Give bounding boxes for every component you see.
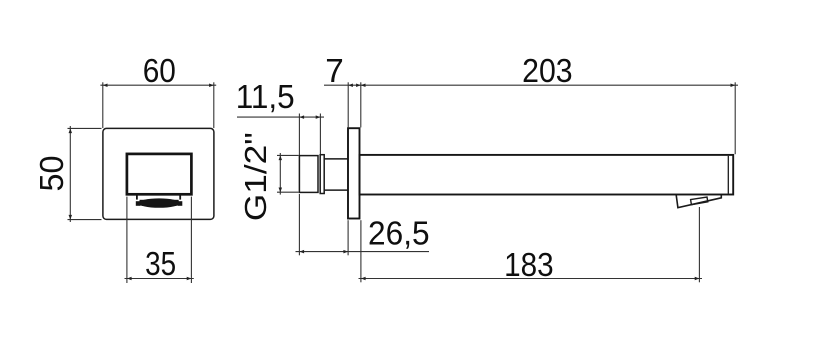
side view: spout end cap seam: [727, 156, 729, 194]
svg-text:203: 203: [522, 52, 573, 89]
front view: aerator ring: [136, 195, 182, 208]
dimension 183: extension lines: [361, 207, 700, 282]
front view: wall plate (60 x 50): [103, 128, 214, 219]
side view: G1/2 threaded connector body: [299, 156, 318, 193]
dimension 26,5: dimension line with arrows: [296, 250, 430, 254]
side view: connector flange ring: [320, 155, 324, 194]
dimension 50: extension lines: [68, 128, 102, 219]
dimension 35: dimension line with arrows: [125, 277, 194, 281]
svg-text:183: 183: [504, 246, 554, 283]
front view: spout body front face (35 wide): [127, 154, 191, 194]
dimension 183: label: [504, 246, 554, 283]
svg-text:35: 35: [145, 245, 176, 282]
dimension 7: extension lines: [348, 82, 361, 127]
side view: aerator outlet face: [691, 197, 708, 205]
side view: connector stem to plate: [324, 159, 348, 190]
dimension 60: dimension line with arrows: [100, 83, 216, 87]
side view: wall plate edge (7 thick): [348, 128, 360, 218]
dimension G1/2": label (rotated): [238, 132, 273, 221]
dimension 35: extension lines: [127, 197, 191, 283]
dimension 60: extension lines: [103, 82, 214, 128]
svg-text:11,5: 11,5: [236, 78, 295, 115]
svg-text:26,5: 26,5: [368, 215, 430, 252]
dimension 11,5: label: [236, 78, 295, 115]
dimension 11,5: extension lines: [299, 114, 320, 156]
side view: aerator housing under spout tip: [676, 195, 721, 208]
svg-text:60: 60: [143, 52, 176, 89]
dimension 50: dimension line with arrows: [69, 126, 73, 222]
dimension 26,5: label: [368, 215, 430, 252]
dimension G1/2": dimension line with arrows: [279, 153, 283, 195]
dimension 26,5: extension lines: [299, 194, 348, 255]
svg-text:7: 7: [325, 52, 344, 89]
dimension 183: dimension line with arrows: [359, 277, 703, 281]
dimension 7 and 203: shared dimension line with arrows: [324, 83, 738, 87]
dimension 7: label: [325, 52, 344, 89]
dimension 11,5: dimension line with arrows: [237, 115, 324, 119]
dimension 203: right extension line: [734, 82, 736, 154]
svg-text:50: 50: [33, 156, 70, 192]
dimension 35: label: [145, 245, 176, 282]
dimension G1/2": extension lines: [277, 155, 299, 192]
dimension 203: label: [522, 52, 573, 89]
dimension 60: label: [143, 52, 176, 89]
svg-text:G1/2": G1/2": [238, 132, 273, 221]
dimension 50: label (rotated): [33, 156, 70, 192]
side view: spout body (203 long): [360, 155, 734, 195]
